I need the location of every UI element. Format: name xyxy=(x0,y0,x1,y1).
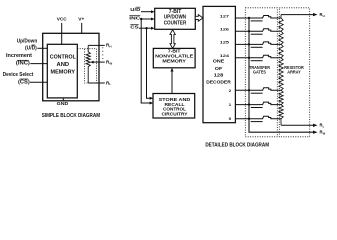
ground GND label xyxy=(57,101,69,107)
pin Device Select (CS) label with overbar xyxy=(3,72,34,85)
svg-text:MEMORY: MEMORY xyxy=(51,70,76,76)
pin RL label (detailed) xyxy=(320,123,325,129)
svg-text:L: L xyxy=(323,125,325,129)
power V+ label xyxy=(78,17,84,23)
svg-text:126: 126 xyxy=(220,27,230,32)
svg-text:MEMORY: MEMORY xyxy=(162,59,186,65)
svg-text:Device Select: Device Select xyxy=(3,72,34,78)
transistor transfer gate row 1 xyxy=(236,102,281,107)
svg-text:CONTROL: CONTROL xyxy=(50,54,77,60)
transistor transfer gate row 0 xyxy=(236,116,281,121)
decoder output number 1 xyxy=(229,102,232,107)
block arrow counter to decoder xyxy=(195,15,203,22)
svg-text:W: W xyxy=(323,131,326,135)
wiper arrow and RW lead (simple) xyxy=(90,61,105,64)
svg-text:OF: OF xyxy=(215,66,223,72)
resistor array chain xyxy=(279,15,283,126)
decoder output number 124 xyxy=(220,53,230,58)
wire INC lead with arrow xyxy=(141,18,155,21)
wire RL lead (detailed) xyxy=(281,124,318,127)
svg-text:125: 125 xyxy=(220,40,230,45)
svg-text:128: 128 xyxy=(214,73,224,79)
block ONE OF 128 DECODER xyxy=(203,6,235,122)
wire VCC lead xyxy=(61,23,63,44)
junction dot row 126 xyxy=(248,30,250,32)
svg-text:CIRCUITRY: CIRCUITRY xyxy=(162,112,189,117)
junction dot row 127 xyxy=(248,17,250,19)
wire dashed wiper-position link (simple) xyxy=(102,47,104,60)
svg-text:DECODER: DECODER xyxy=(206,79,231,85)
decoder output number 0 xyxy=(229,116,232,121)
power VCC label xyxy=(57,17,68,23)
wire CS input lead xyxy=(30,81,47,83)
svg-text:H: H xyxy=(109,45,111,49)
svg-text:COUNTER: COUNTER xyxy=(164,20,187,26)
block 7-BIT UP/DOWN COUNTER xyxy=(155,8,196,29)
svg-text:W: W xyxy=(109,61,112,65)
junction dot row 124 xyxy=(248,57,250,59)
svg-text:ONE: ONE xyxy=(213,59,225,65)
junction dot INC branch xyxy=(140,18,142,20)
svg-text:V+: V+ xyxy=(78,17,84,23)
svg-text:SIMPLE BLOCK DIAGRAM: SIMPLE BLOCK DIAGRAM xyxy=(42,113,100,119)
wire RL lead (simple) xyxy=(88,82,105,84)
svg-text:CS: CS xyxy=(130,25,139,31)
svg-text:GATES: GATES xyxy=(253,70,266,75)
caption DETAILED BLOCK DIAGRAM xyxy=(205,143,269,149)
block arrow counter to/from memory (bidirectional) xyxy=(170,30,175,49)
block STORE AND RECALL CONTROL CIRCUITRY xyxy=(153,94,195,119)
pin U/D input label (detailed) xyxy=(130,7,141,13)
junction dot CS branch xyxy=(145,27,147,29)
pin RW label (detailed) xyxy=(320,130,326,136)
pin INC input label (detailed) xyxy=(129,16,141,22)
caption SIMPLE BLOCK DIAGRAM xyxy=(42,113,100,119)
wire CS lead with arrow xyxy=(139,27,155,30)
svg-text:124: 124 xyxy=(220,53,230,58)
wire dotted control link to potentiometer xyxy=(77,48,84,50)
svg-text:Up/Down: Up/Down xyxy=(17,38,38,44)
svg-text:(U/D): (U/D) xyxy=(25,45,37,51)
wire arrow store/recall to memory xyxy=(170,68,173,94)
wire U/D input lead xyxy=(37,47,47,49)
svg-text:(CS): (CS) xyxy=(18,79,30,85)
box dashed potentiometer enclosure xyxy=(85,49,97,83)
pin RH label (detailed) xyxy=(320,12,325,18)
wire wiper bus to RW xyxy=(249,18,318,134)
box dashed TRANSFER GATES xyxy=(245,8,277,137)
transistor transfer gate row 125 xyxy=(236,42,281,47)
transistor transfer gate row 126 xyxy=(236,29,281,34)
pin RL label (simple) xyxy=(106,80,111,86)
svg-text:INC: INC xyxy=(129,16,141,22)
svg-text:L: L xyxy=(109,82,111,86)
wire V+ lead xyxy=(81,23,83,33)
transistor transfer gate row 124 xyxy=(236,55,281,60)
svg-text:GND: GND xyxy=(57,101,69,107)
svg-text:NONVOLATILE: NONVOLATILE xyxy=(155,54,194,60)
pin Up/Down (U/D) label with overbar xyxy=(17,38,38,51)
decoder output number 126 xyxy=(220,27,230,32)
junction dot row 125 xyxy=(248,43,250,45)
svg-text:H: H xyxy=(323,14,325,18)
transistor transfer gate row 2 xyxy=(236,88,281,93)
device outer box (simple block diagram) xyxy=(43,33,99,101)
wire U/D lead with arrow xyxy=(141,10,155,13)
box dashed RESISTOR ARRAY xyxy=(279,8,309,137)
wire CS branch down to store/recall xyxy=(147,28,154,100)
resistor potentiometer element xyxy=(86,45,90,83)
svg-text:7-BIT: 7-BIT xyxy=(168,48,181,54)
block 7-BIT NONVOLATILE MEMORY xyxy=(153,48,195,67)
wire INC input lead xyxy=(30,63,47,65)
junction dot row 1 xyxy=(248,103,250,105)
svg-text:VCC: VCC xyxy=(57,17,68,23)
block CONTROL AND MEMORY xyxy=(47,44,77,98)
pin RH label (simple) xyxy=(106,43,112,49)
pin CS input label (detailed) xyxy=(130,25,139,31)
junction dot row 2 xyxy=(248,89,250,91)
svg-text:(INC): (INC) xyxy=(16,61,30,67)
wire RH lead (detailed) xyxy=(281,13,318,16)
svg-text:U/D: U/D xyxy=(130,7,141,13)
pin RW label (simple) xyxy=(106,59,112,65)
svg-text:ARRAY: ARRAY xyxy=(287,70,301,75)
wire RH lead (simple) xyxy=(88,44,105,46)
wire GND lead xyxy=(62,98,64,101)
svg-text:Increment: Increment xyxy=(6,53,32,59)
svg-text:AND: AND xyxy=(57,62,70,68)
junction dot row 0 xyxy=(248,118,250,120)
pin Increment (INC) label with overbar xyxy=(6,53,32,66)
decoder output number 127 xyxy=(220,13,230,18)
decoder output number 2 xyxy=(229,88,232,93)
svg-text:DETAILED BLOCK DIAGRAM: DETAILED BLOCK DIAGRAM xyxy=(205,143,269,149)
svg-text:127: 127 xyxy=(220,13,230,18)
decoder output number 125 xyxy=(220,40,230,45)
transistor transfer gate row 127 xyxy=(236,16,281,21)
wire INC branch down to store/recall xyxy=(141,19,153,105)
